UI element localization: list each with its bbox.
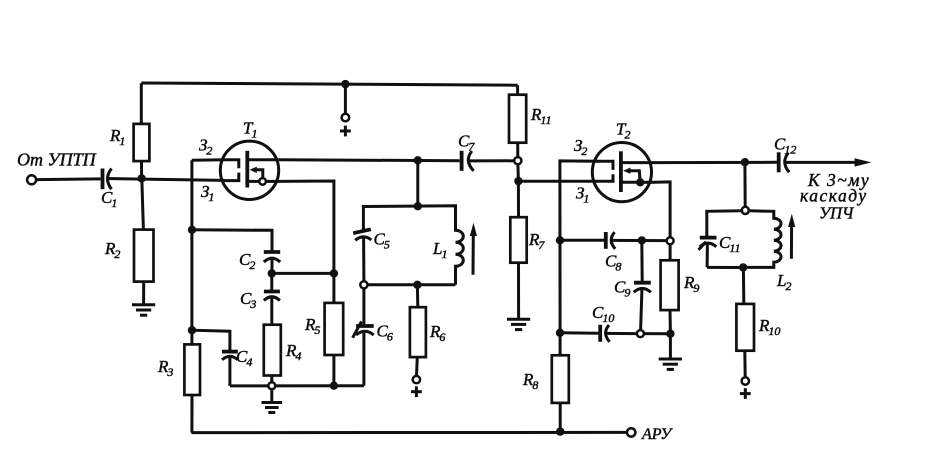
label L1 bbox=[432, 239, 447, 261]
label C1 bbox=[101, 188, 117, 210]
label C10 bbox=[592, 303, 614, 325]
svg-text:R9: R9 bbox=[683, 273, 699, 295]
resistor R2 bbox=[134, 178, 154, 304]
wire C9 bottom to R9 bottom bbox=[644, 332, 671, 335]
wire З2 AGC vertical bbox=[190, 160, 193, 344]
wire to C4 bbox=[192, 330, 230, 350]
svg-text:З1: З1 bbox=[576, 184, 589, 206]
svg-text:R8: R8 bbox=[522, 370, 538, 392]
junction drain tank tap bbox=[414, 156, 422, 164]
label R8 bbox=[522, 370, 538, 392]
label R2 bbox=[104, 239, 120, 261]
label C11 bbox=[719, 233, 740, 255]
svg-text:R5: R5 bbox=[304, 315, 320, 337]
resistor R6 bbox=[410, 285, 426, 376]
svg-text:R1: R1 bbox=[109, 126, 125, 148]
wire L2 tank top right bbox=[749, 211, 774, 218]
wire AGC bottom rail bbox=[191, 431, 627, 434]
supply terminal + (R10) bbox=[740, 377, 751, 399]
label C9 bbox=[614, 278, 630, 300]
junction T2 bias node bbox=[514, 177, 522, 185]
junction C10 left bbox=[556, 329, 564, 337]
capacitor C7 bbox=[462, 151, 515, 171]
svg-text:З1: З1 bbox=[201, 182, 214, 204]
junction output tank tap bbox=[741, 158, 749, 166]
svg-text:C7: C7 bbox=[458, 132, 475, 154]
label З1 gate of T2 bbox=[576, 184, 589, 206]
svg-text:C4: C4 bbox=[236, 347, 252, 369]
svg-text:R6: R6 bbox=[429, 322, 445, 344]
capacitor C4 bbox=[222, 352, 238, 386]
inductor L2 bbox=[747, 218, 781, 267]
wire output tank drop bbox=[743, 162, 746, 207]
resistor R10 bbox=[736, 268, 754, 378]
label C2 bbox=[239, 250, 255, 272]
resistor R3 bbox=[184, 344, 200, 432]
junction tank top bbox=[414, 202, 422, 210]
label От УПТП bbox=[17, 150, 97, 170]
wire ground rail C4 R4 R5 C6 bbox=[230, 384, 364, 387]
label R10 bbox=[758, 316, 780, 338]
resistor R9 bbox=[661, 244, 679, 333]
svg-text:L2: L2 bbox=[776, 271, 791, 293]
inductor L1 bbox=[456, 230, 464, 284]
label АРУ bbox=[641, 426, 673, 443]
svg-text:C12: C12 bbox=[774, 135, 796, 157]
wire tank bottom rail bbox=[368, 283, 456, 286]
junction C9 bottom bbox=[637, 330, 644, 337]
crossover hook on R11 lead bbox=[514, 157, 521, 164]
arrow L2 tuning bbox=[788, 214, 795, 259]
wire T2 source down to R9 bbox=[652, 182, 671, 237]
resistor R11 bbox=[509, 85, 526, 157]
junction C8 left bbox=[556, 236, 564, 244]
junction C2 C3 node bbox=[268, 269, 276, 277]
ground under R2 bbox=[132, 305, 155, 315]
label R6 bbox=[429, 322, 445, 344]
label З2 gate of T2 bbox=[574, 136, 587, 158]
label C4 bbox=[236, 347, 252, 369]
wire tank tap drop bbox=[416, 160, 419, 206]
capacitor C6 bbox=[353, 288, 374, 385]
wire C1 to gate З1 of T1 bbox=[106, 179, 225, 181]
svg-text:R2: R2 bbox=[104, 239, 120, 261]
junction З2 line C2 tap bbox=[188, 226, 196, 234]
wire T1 drain to C7 bbox=[279, 158, 460, 162]
output arrowhead bbox=[855, 158, 872, 166]
supply terminal + (R6) bbox=[411, 376, 422, 397]
capacitor C11 bbox=[699, 238, 717, 268]
svg-text:каскаду: каскаду bbox=[800, 186, 868, 206]
svg-text:R3: R3 bbox=[157, 357, 173, 379]
label R4 bbox=[285, 341, 301, 363]
ground under R7 bbox=[507, 319, 530, 329]
junction R9 bottom bbox=[666, 330, 674, 338]
label R9 bbox=[683, 273, 699, 295]
wire C11 to tank bottom bbox=[707, 266, 739, 269]
junction input node bbox=[137, 174, 145, 182]
input terminal От УПТП bbox=[27, 175, 36, 184]
wire T2 drain to output bbox=[652, 161, 778, 164]
svg-text:Т1: Т1 bbox=[243, 119, 257, 141]
label R5 bbox=[304, 315, 320, 337]
supply terminal + (top) bbox=[340, 114, 351, 137]
wire T1 gate З2 lead bbox=[192, 158, 225, 161]
svg-text:R7: R7 bbox=[528, 230, 545, 252]
svg-text:C5: C5 bbox=[374, 230, 390, 252]
label R7 bbox=[528, 230, 545, 252]
ground under R4 bbox=[262, 389, 283, 412]
svg-text:C8: C8 bbox=[605, 252, 621, 274]
label C12 bbox=[774, 135, 796, 157]
resistor R7 bbox=[510, 181, 526, 318]
svg-text:L1: L1 bbox=[432, 239, 447, 261]
wire T2 gate З2 and network vertical bbox=[560, 161, 597, 355]
resistor R4 bbox=[264, 325, 281, 383]
wire T1 source to R5 bbox=[279, 181, 334, 303]
wire to C2 bbox=[192, 230, 272, 251]
junction tank bottom R6 bbox=[413, 281, 421, 289]
svg-text:R4: R4 bbox=[285, 341, 301, 363]
capacitor C9 bbox=[634, 240, 651, 330]
svg-text:R10: R10 bbox=[758, 316, 780, 338]
resistor R1 bbox=[134, 83, 150, 178]
junction C8 C9 node bbox=[638, 236, 646, 244]
capacitor C5 bbox=[353, 229, 371, 281]
label C7 bbox=[458, 132, 475, 154]
junction top rail supply tap bbox=[341, 80, 349, 88]
wire C2 node to source line bbox=[272, 272, 334, 275]
svg-text:УПЧ: УПЧ bbox=[819, 204, 855, 223]
terminal АРУ bbox=[627, 428, 635, 436]
label З1 gate of T1 bbox=[201, 182, 214, 204]
label R1 bbox=[109, 126, 125, 148]
svg-text:C2: C2 bbox=[239, 250, 255, 272]
svg-text:Т2: Т2 bbox=[616, 120, 630, 142]
wire supply tap drop bbox=[344, 84, 347, 114]
resistor R8 bbox=[552, 355, 569, 432]
svg-text:C11: C11 bbox=[719, 233, 740, 255]
label L2 bbox=[776, 271, 791, 293]
wire R11 to bias node bbox=[516, 164, 520, 181]
svg-text:От УПТП: От УПТП bbox=[17, 150, 97, 170]
wire C8 line left bbox=[560, 239, 605, 242]
wire L2 tank top left bbox=[707, 211, 742, 237]
wire bias node to T2 gate З1 bbox=[518, 180, 596, 183]
capacitor C2 bbox=[264, 252, 280, 273]
junction C5 bottom bbox=[360, 281, 367, 288]
capacitor C8 bbox=[606, 232, 667, 249]
wire top supply rail bbox=[141, 83, 517, 85]
svg-text:C6: C6 bbox=[377, 322, 393, 344]
junction R5 bottom bbox=[330, 382, 338, 390]
label З2 gate of T1 bbox=[199, 136, 212, 158]
svg-text:З2: З2 bbox=[574, 136, 587, 158]
arrow L1 tuning bbox=[470, 223, 477, 275]
ground under R9 bbox=[659, 334, 682, 370]
svg-text:З2: З2 bbox=[199, 136, 212, 158]
svg-text:C9: C9 bbox=[614, 278, 630, 300]
junction R4 bottom bbox=[268, 382, 275, 389]
svg-text:C3: C3 bbox=[240, 289, 256, 311]
label C8 bbox=[605, 252, 621, 274]
svg-text:C10: C10 bbox=[592, 303, 614, 325]
wire tank top rail bbox=[363, 206, 455, 231]
junction R8 AGC bbox=[556, 427, 564, 435]
junction L2 tank top bbox=[742, 207, 749, 214]
junction L2 tank bottom bbox=[739, 263, 747, 271]
junction source R9 C8 node bbox=[667, 237, 674, 244]
capacitor C10 bbox=[600, 325, 637, 342]
transistor T2 bbox=[592, 143, 651, 202]
junction source line tap bbox=[330, 269, 338, 277]
capacitor C3 bbox=[264, 273, 280, 324]
label C6 bbox=[377, 322, 393, 344]
label C5 bbox=[374, 230, 390, 252]
svg-text:АРУ: АРУ bbox=[641, 426, 673, 443]
capacitor C1 bbox=[103, 169, 112, 190]
wire input to C1 bbox=[36, 177, 100, 181]
resistor R5 bbox=[325, 303, 344, 386]
capacitor C12 bbox=[779, 152, 856, 172]
junction З2 line C4 tap bbox=[188, 326, 196, 334]
svg-text:R11: R11 bbox=[530, 105, 552, 127]
wire C10 line left bbox=[560, 331, 599, 334]
label C3 bbox=[240, 289, 256, 311]
transistor T1 bbox=[220, 141, 278, 199]
label К 3-му каскаду УПЧ bbox=[800, 170, 870, 223]
label T2 bbox=[616, 120, 630, 142]
label R11 bbox=[530, 105, 552, 127]
label R3 bbox=[157, 357, 173, 379]
label T1 bbox=[243, 119, 257, 141]
svg-text:C1: C1 bbox=[101, 188, 117, 210]
